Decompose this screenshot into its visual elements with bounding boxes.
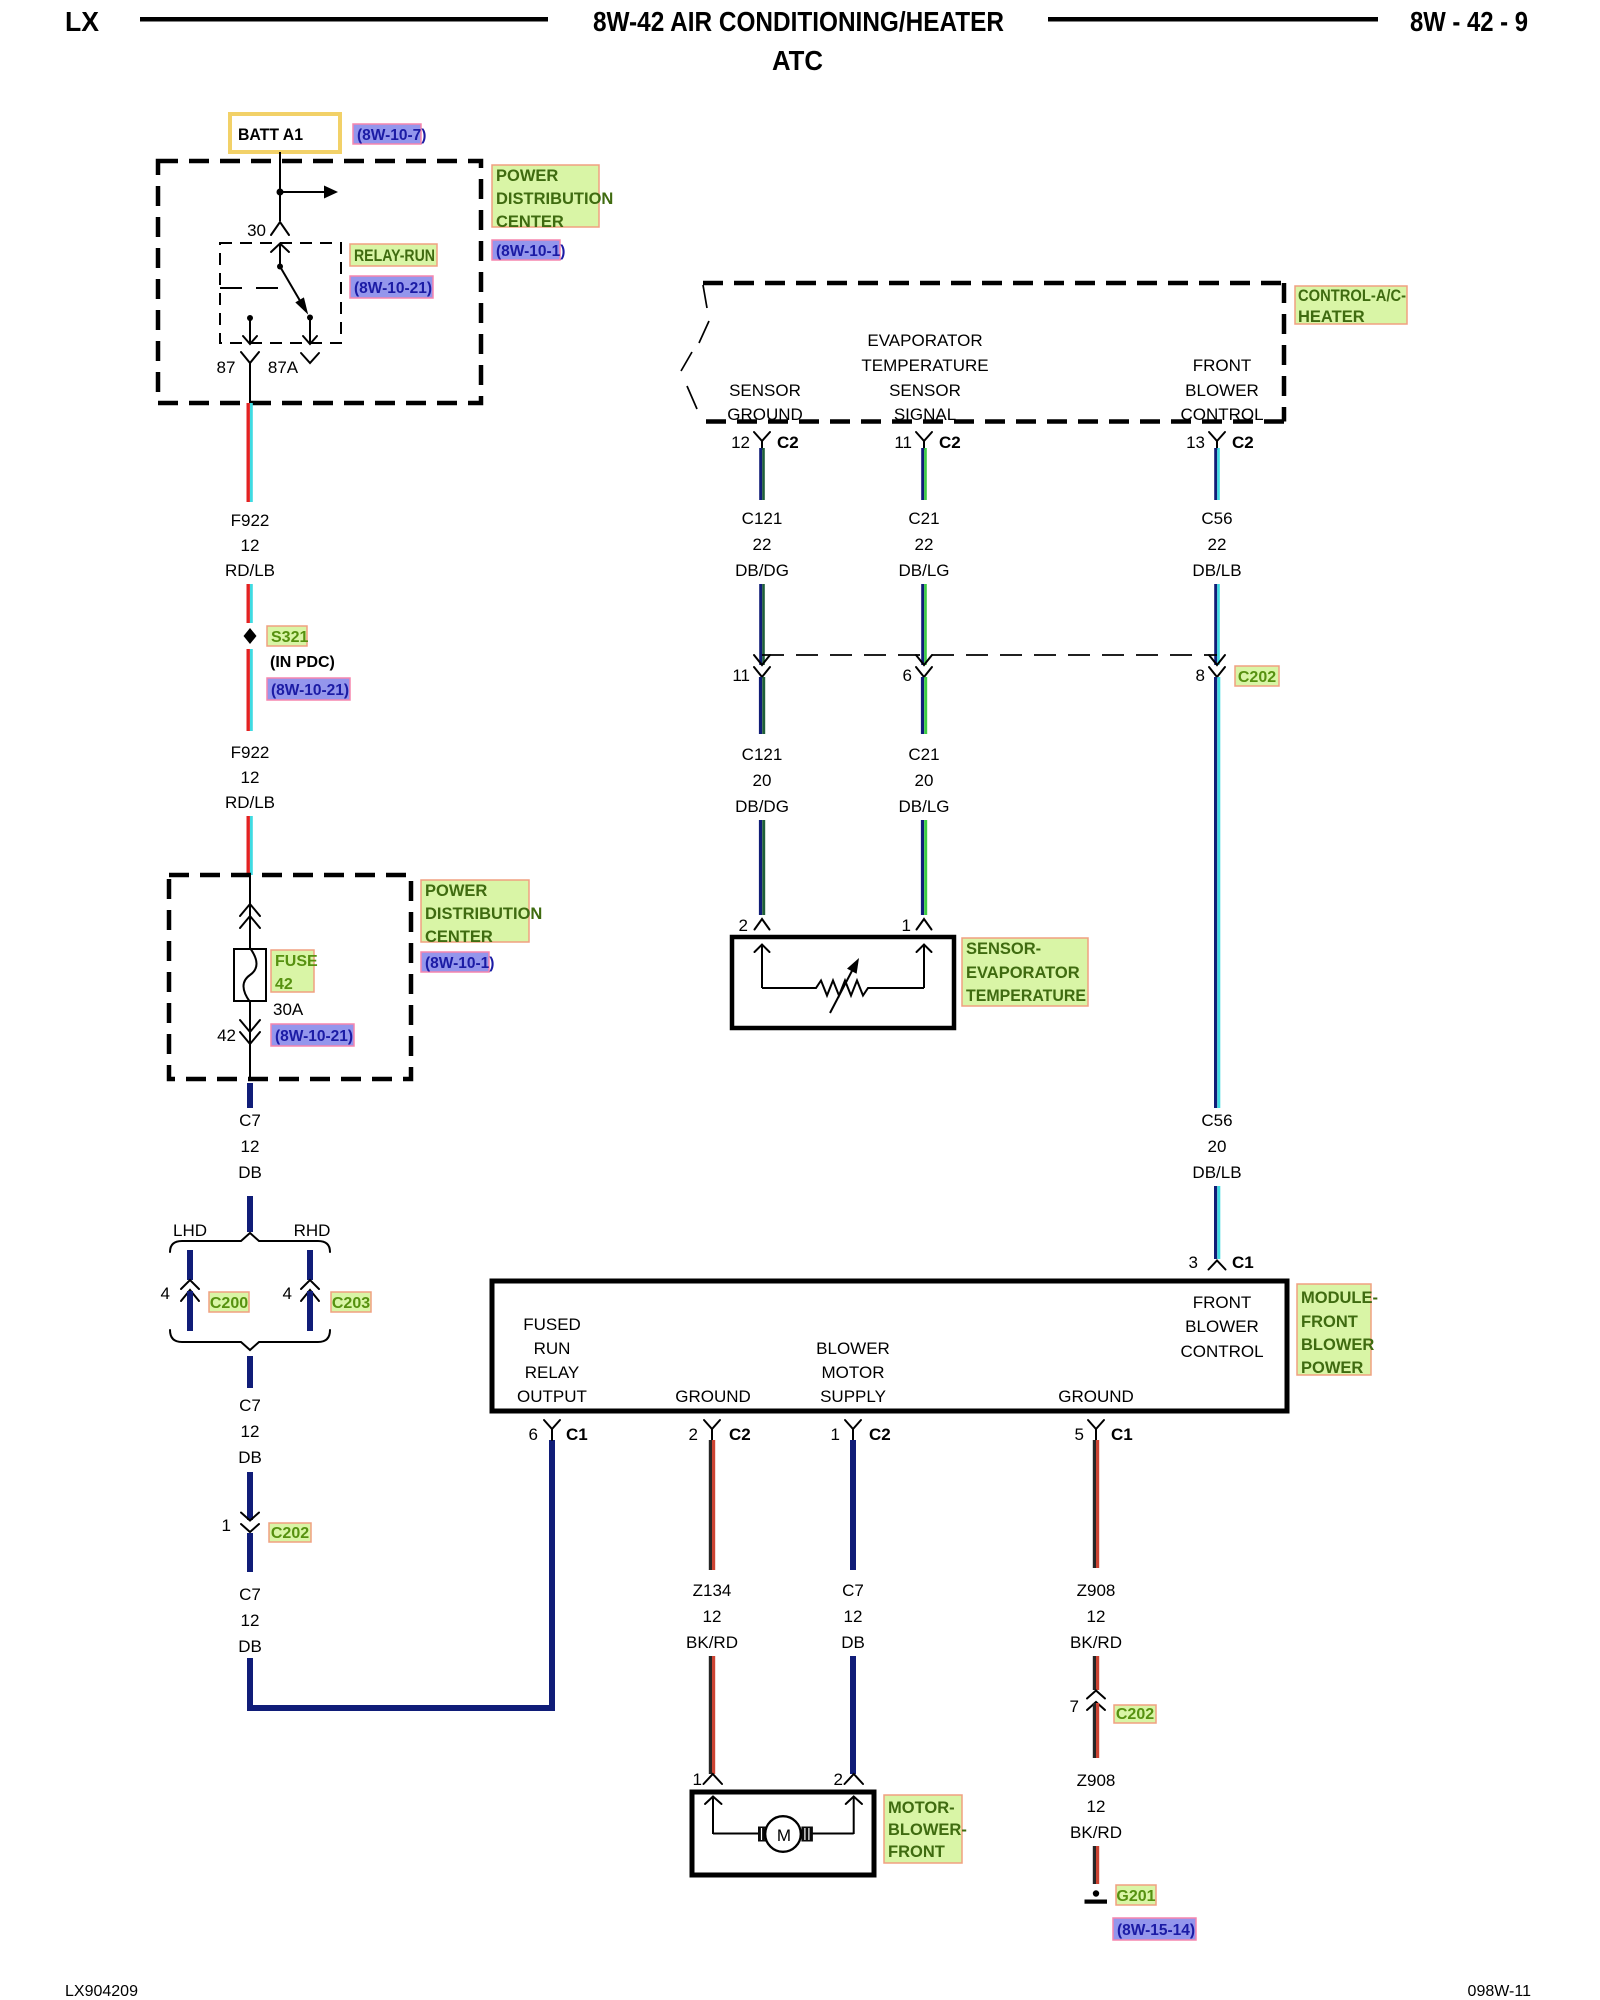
wire C56 22 DB/LB segment 1 — [1214, 448, 1217, 500]
svg-text:22: 22 — [1208, 535, 1227, 554]
svg-text:13: 13 — [1186, 433, 1205, 452]
thermistor variable arrow — [830, 967, 854, 1013]
junction node in PDC — [277, 189, 284, 196]
svg-text:3: 3 — [1189, 1253, 1198, 1272]
wire Z908 segment 2 — [1093, 1656, 1096, 1690]
svg-text:6: 6 — [903, 666, 912, 685]
svg-text:1: 1 — [831, 1425, 840, 1444]
svg-text:C121: C121 — [742, 509, 783, 528]
svg-text:(8W-10-1): (8W-10-1) — [496, 243, 565, 260]
svg-text:SUPPLY: SUPPLY — [820, 1387, 886, 1406]
wire Z908 segment 3 — [1093, 1703, 1096, 1758]
header rule right — [1048, 17, 1378, 22]
svg-text:C2: C2 — [1232, 433, 1254, 452]
svg-text:11: 11 — [894, 433, 912, 452]
label POWER DISTRIBUTION CENTER 2 — [421, 880, 529, 942]
svg-text:RD/LB: RD/LB — [225, 561, 275, 580]
svg-text:12: 12 — [844, 1607, 863, 1626]
svg-text:ATC: ATC — [772, 45, 823, 76]
wire C56 20 DB/LB long segment — [1214, 677, 1217, 1108]
svg-text:MOTOR: MOTOR — [822, 1363, 885, 1382]
svg-text:8: 8 — [1196, 666, 1205, 685]
svg-text:CONTROL-A/C-: CONTROL-A/C- — [1298, 287, 1406, 305]
label CONTROL-A/C-HEATER — [1295, 286, 1407, 324]
svg-text:C1: C1 — [1232, 1253, 1254, 1272]
label RELAY-RUN — [350, 244, 437, 266]
ground G201 symbol — [1093, 1890, 1099, 1896]
wire Z134 12 BK/RD segment 1 — [709, 1440, 712, 1570]
label (8W-15-14) — [1113, 1918, 1196, 1940]
fuse 42 body — [234, 949, 266, 1001]
svg-text:LX: LX — [65, 6, 99, 37]
svg-text:12: 12 — [241, 1422, 260, 1441]
svg-text:RD/LB: RD/LB — [225, 793, 275, 812]
svg-text:2: 2 — [689, 1425, 698, 1444]
power distribution center box 2 (dashed) — [169, 875, 411, 1079]
control A/C-heater box (dashed, torn left edge) — [703, 281, 1284, 286]
label (8W-10-7) — [353, 124, 421, 144]
svg-text:SENSOR-: SENSOR- — [966, 940, 1041, 958]
svg-text:MOTOR-: MOTOR- — [888, 1799, 955, 1817]
label SENSOR-EVAPORATOR TEMPERATURE — [962, 938, 1088, 1006]
svg-text:BLOWER-: BLOWER- — [888, 1821, 967, 1839]
svg-text:DB: DB — [841, 1633, 865, 1652]
svg-text:C200: C200 — [210, 1295, 248, 1312]
svg-text:RHD: RHD — [294, 1221, 331, 1240]
brace top — [170, 1233, 330, 1252]
svg-text:7: 7 — [1070, 1697, 1079, 1716]
wire into fuse — [249, 875, 251, 949]
svg-text:87A: 87A — [268, 358, 299, 377]
label MODULE-FRONT BLOWER POWER — [1297, 1284, 1371, 1375]
svg-text:GROUND: GROUND — [1058, 1387, 1134, 1406]
svg-text:FUSED: FUSED — [523, 1315, 581, 1334]
svg-text:GROUND: GROUND — [727, 405, 803, 424]
svg-text:SIGNAL: SIGNAL — [894, 405, 956, 424]
svg-text:8W - 42 - 9: 8W - 42 - 9 — [1410, 6, 1528, 37]
wire C21 20 DB/LG segment 3 — [921, 677, 924, 734]
wire F922 segment 4 — [246, 816, 249, 875]
motor pin 1 internal arrow — [712, 1797, 714, 1834]
connector double chevron into PDC2 — [240, 904, 260, 928]
svg-text:DISTRIBUTION: DISTRIBUTION — [425, 905, 542, 923]
svg-text:C56: C56 — [1201, 1111, 1232, 1130]
svg-text:42: 42 — [275, 976, 293, 993]
svg-text:DB/LG: DB/LG — [898, 797, 949, 816]
svg-text:BK/RD: BK/RD — [1070, 1633, 1122, 1652]
svg-text:12: 12 — [731, 433, 750, 452]
svg-text:DB: DB — [238, 1163, 262, 1182]
wire 87 to PDC edge — [249, 376, 251, 403]
wire C21 22 segment 2 — [921, 584, 924, 665]
svg-text:C2: C2 — [729, 1425, 751, 1444]
label FUSE 42 — [271, 950, 314, 992]
wire C7 segment 4 — [247, 1472, 253, 1520]
svg-text:DB/DG: DB/DG — [735, 561, 789, 580]
wire C56 22 segment 2 — [1214, 584, 1217, 665]
svg-text:POWER: POWER — [425, 882, 487, 900]
svg-text:M: M — [777, 1826, 791, 1845]
svg-text:BLOWER: BLOWER — [1185, 381, 1259, 400]
sensor-evaporator temperature box — [732, 937, 954, 1028]
svg-text:(8W-10-21): (8W-10-21) — [354, 280, 432, 297]
svg-text:POWER: POWER — [496, 167, 558, 185]
svg-text:6: 6 — [529, 1425, 538, 1444]
relay movable contact diagonal — [280, 267, 306, 312]
svg-text:TEMPERATURE: TEMPERATURE — [861, 356, 988, 375]
svg-text:BK/RD: BK/RD — [1070, 1823, 1122, 1842]
svg-text:C1: C1 — [566, 1425, 588, 1444]
label MOTOR-BLOWER-FRONT — [884, 1795, 962, 1863]
svg-text:C7: C7 — [842, 1581, 864, 1600]
svg-text:C7: C7 — [239, 1585, 261, 1604]
svg-text:098W-11: 098W-11 — [1468, 1983, 1532, 2000]
svg-text:1: 1 — [222, 1516, 231, 1535]
wire C7 segment 5 — [247, 1533, 253, 1572]
wire F922 segment 2 — [246, 584, 249, 623]
motor leads — [713, 1833, 854, 1835]
label (8W-10-21) — [267, 678, 350, 700]
svg-text:CENTER: CENTER — [496, 213, 564, 231]
svg-text:30A: 30A — [273, 1000, 304, 1019]
motor brush left — [758, 1827, 770, 1842]
svg-text:1: 1 — [693, 1770, 702, 1789]
svg-text:CONTROL: CONTROL — [1180, 1342, 1263, 1361]
splice S321 — [244, 628, 257, 644]
label (8W-10-21) — [350, 276, 433, 298]
sensor pin 2 internal arrow — [761, 944, 763, 988]
svg-text:LX904209: LX904209 — [65, 1983, 138, 2000]
svg-text:DB/DG: DB/DG — [735, 797, 789, 816]
svg-text:C1: C1 — [1111, 1425, 1133, 1444]
svg-text:Z908: Z908 — [1077, 1581, 1116, 1600]
label (8W-10-1) — [492, 240, 560, 260]
svg-text:20: 20 — [753, 771, 772, 790]
motor M circle — [765, 1816, 801, 1852]
relay contact 87 leg — [247, 315, 253, 321]
svg-text:12: 12 — [241, 1137, 260, 1156]
svg-text:(8W-10-21): (8W-10-21) — [271, 682, 349, 699]
wire C121 22 DB/DG segment 1 — [759, 448, 762, 500]
wire C7 segment 2 — [247, 1196, 253, 1232]
svg-text:C203: C203 — [332, 1295, 370, 1312]
svg-text:C56: C56 — [1201, 509, 1232, 528]
svg-text:EVAPORATOR: EVAPORATOR — [867, 331, 982, 350]
svg-text:C7: C7 — [239, 1111, 261, 1130]
svg-text:42: 42 — [217, 1026, 236, 1045]
relay common arm arrow up — [279, 244, 281, 266]
svg-text:BATT A1: BATT A1 — [238, 125, 303, 144]
svg-text:C121: C121 — [742, 745, 783, 764]
svg-text:DB/LG: DB/LG — [898, 561, 949, 580]
wire RHD branch — [307, 1250, 313, 1280]
svg-text:87: 87 — [217, 358, 236, 377]
battery feed BATT A1 box — [230, 114, 340, 152]
svg-text:2: 2 — [739, 916, 748, 935]
svg-text:CENTER: CENTER — [425, 928, 493, 946]
svg-text:12: 12 — [703, 1607, 722, 1626]
label (8W-10-1) — [421, 952, 489, 972]
wire C121 22 segment 2 — [759, 584, 762, 665]
svg-text:Z908: Z908 — [1077, 1771, 1116, 1790]
svg-text:4: 4 — [283, 1284, 292, 1303]
svg-text:DB: DB — [238, 1448, 262, 1467]
svg-text:CONTROL: CONTROL — [1180, 405, 1263, 424]
svg-text:C2: C2 — [869, 1425, 891, 1444]
svg-text:BK/RD: BK/RD — [686, 1633, 738, 1652]
wire F922 12 RD/LB segment 1 — [246, 403, 249, 502]
svg-text:FUSE: FUSE — [275, 953, 318, 970]
brace bottom — [170, 1330, 330, 1350]
svg-text:22: 22 — [915, 535, 934, 554]
svg-text:(8W-10-21): (8W-10-21) — [275, 1028, 353, 1045]
wire fuse to pin 42 — [249, 1001, 251, 1079]
label G201 — [1116, 1885, 1156, 1905]
wire C7 segment 6 down and right to module — [250, 1440, 552, 1708]
wire C7 12 DB segment 1 — [247, 1083, 253, 1108]
svg-text:RELAY: RELAY — [525, 1363, 580, 1382]
svg-text:LHD: LHD — [173, 1221, 207, 1240]
svg-text:TEMPERATURE: TEMPERATURE — [966, 987, 1086, 1005]
svg-text:20: 20 — [1208, 1137, 1227, 1156]
branch arrow to other circuits — [280, 191, 325, 193]
wire Z908 12 BK/RD segment 1 — [1093, 1440, 1096, 1568]
svg-text:5: 5 — [1075, 1425, 1084, 1444]
svg-text:2: 2 — [834, 1770, 843, 1789]
svg-text:C7: C7 — [239, 1396, 261, 1415]
svg-text:RELAY-RUN: RELAY-RUN — [354, 247, 435, 265]
svg-text:SENSOR: SENSOR — [729, 381, 801, 400]
motor-blower-front box — [692, 1792, 874, 1875]
svg-text:1: 1 — [902, 916, 911, 935]
relay contact 87A leg — [309, 318, 311, 344]
svg-text:C2: C2 — [777, 433, 799, 452]
svg-text:FRONT: FRONT — [1193, 1293, 1252, 1312]
svg-text:12: 12 — [241, 536, 260, 555]
thermistor element — [762, 981, 924, 996]
label (8W-10-21) — [271, 1024, 354, 1046]
sensor pin 1 internal arrow — [923, 944, 925, 988]
wire C7 12 DB to motor segment 1 — [850, 1440, 856, 1570]
svg-text:C202: C202 — [1116, 1706, 1154, 1723]
svg-text:8W-42 AIR CONDITIONING/HEATER: 8W-42 AIR CONDITIONING/HEATER — [593, 6, 1004, 37]
svg-text:(8W-10-7): (8W-10-7) — [357, 127, 426, 144]
svg-text:C21: C21 — [908, 745, 939, 764]
motor pin 2 internal arrow — [853, 1797, 855, 1834]
svg-text:BLOWER: BLOWER — [1301, 1336, 1374, 1354]
wire C7 segment 3 — [247, 1356, 253, 1388]
svg-text:HEATER: HEATER — [1298, 308, 1365, 326]
svg-text:SENSOR: SENSOR — [889, 381, 961, 400]
svg-text:C202: C202 — [271, 1525, 309, 1542]
svg-text:12: 12 — [1087, 1797, 1106, 1816]
svg-text:OUTPUT: OUTPUT — [517, 1387, 587, 1406]
relay RELAY-RUN box (dashed) — [220, 243, 341, 343]
svg-text:12: 12 — [241, 1611, 260, 1630]
svg-text:12: 12 — [241, 768, 260, 787]
svg-text:S321: S321 — [271, 629, 308, 646]
svg-text:G201: G201 — [1116, 1888, 1155, 1905]
svg-text:GROUND: GROUND — [675, 1387, 751, 1406]
svg-text:F922: F922 — [231, 511, 270, 530]
svg-text:FRONT: FRONT — [1193, 356, 1252, 375]
module-front blower power box — [492, 1281, 1287, 1411]
svg-text:(8W-15-14): (8W-15-14) — [1117, 1922, 1195, 1939]
svg-text:11: 11 — [732, 666, 750, 685]
svg-text:DB: DB — [238, 1637, 262, 1656]
svg-text:POWER: POWER — [1301, 1359, 1363, 1377]
svg-text:4: 4 — [161, 1284, 170, 1303]
wire Z908 segment 4 — [1093, 1846, 1096, 1884]
wire C21 22 DB/LG segment 1 — [921, 448, 924, 500]
svg-text:DB/LB: DB/LB — [1192, 1163, 1241, 1182]
svg-text:C21: C21 — [908, 509, 939, 528]
svg-text:MODULE-: MODULE- — [1301, 1289, 1378, 1307]
svg-text:20: 20 — [915, 771, 934, 790]
svg-text:EVAPORATOR: EVAPORATOR — [966, 964, 1080, 982]
connector C202 dashed crossing line — [762, 654, 1217, 656]
svg-text:C2: C2 — [939, 433, 961, 452]
svg-text:BLOWER: BLOWER — [1185, 1317, 1259, 1336]
svg-text:Z134: Z134 — [693, 1581, 732, 1600]
svg-text:(8W-10-1): (8W-10-1) — [425, 955, 494, 972]
svg-text:30: 30 — [247, 221, 266, 240]
header rule left — [140, 17, 548, 22]
wire C21 20 segment 4 — [921, 820, 924, 915]
svg-text:C202: C202 — [1238, 669, 1276, 686]
svg-text:(IN PDC): (IN PDC) — [270, 654, 335, 671]
power distribution center box 1 (dashed) — [158, 161, 481, 403]
wire Z134 segment 2 — [709, 1656, 712, 1774]
svg-text:BLOWER: BLOWER — [816, 1339, 890, 1358]
svg-text:FRONT: FRONT — [1301, 1313, 1358, 1331]
svg-text:DISTRIBUTION: DISTRIBUTION — [496, 190, 613, 208]
wire C7 to motor segment 2 — [850, 1656, 856, 1774]
wire from BATT A1 into PDC — [279, 152, 281, 221]
svg-text:FRONT: FRONT — [888, 1843, 945, 1861]
svg-text:F922: F922 — [231, 743, 270, 762]
motor brush right — [801, 1827, 813, 1842]
svg-text:12: 12 — [1087, 1607, 1106, 1626]
wire C121 20 DB/DG segment 3 — [759, 677, 762, 734]
svg-text:RUN: RUN — [534, 1339, 571, 1358]
label C202 — [1235, 666, 1279, 686]
label POWER DISTRIBUTION CENTER — [492, 165, 599, 227]
svg-text:22: 22 — [753, 535, 772, 554]
svg-text:DB/LB: DB/LB — [1192, 561, 1241, 580]
wire C121 20 segment 4 — [759, 820, 762, 915]
wire LHD branch — [187, 1250, 193, 1280]
relay coil dashed line — [220, 287, 282, 289]
wire C56 20 segment 2 — [1214, 1186, 1217, 1259]
wire F922 segment 3 — [246, 649, 249, 731]
